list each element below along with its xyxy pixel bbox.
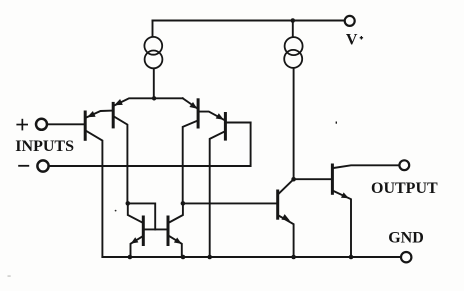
node Q7 collector junction	[291, 177, 296, 182]
transistor Q5 (mirror left)	[142, 217, 145, 245]
node gnd Q5	[128, 255, 133, 260]
wire mirror diode link	[128, 203, 155, 229]
current source I1	[144, 37, 162, 55]
wire Q8 emitter	[334, 191, 352, 257]
wire Q1 emitter to Q2 base	[86, 111, 112, 118]
wire CS1 bottom lead	[153, 69, 155, 99]
node gnd Q7	[291, 255, 296, 260]
transistor Q4 (PNP input follower -)	[224, 114, 227, 140]
wire Q5 collector	[128, 203, 143, 223]
wire mirror bases link	[143, 228, 168, 230]
wire top supply rail	[153, 20, 344, 22]
node top rail junction	[291, 18, 296, 23]
transistor Q3 (PNP diff pair right)	[197, 100, 200, 127]
node mirror right	[181, 201, 186, 206]
wire Q8 collector to OUTPUT	[334, 165, 400, 168]
wire Q4 base loop	[226, 122, 250, 124]
wire ground rail	[102, 256, 400, 258]
svg-text:OUTPUT: OUTPUT	[371, 180, 438, 197]
wire CS1 top lead	[152, 21, 154, 37]
current source I2	[285, 37, 303, 55]
svg-text:V: V	[346, 31, 358, 48]
node gnd Q8	[349, 255, 354, 260]
label + sign	[16, 119, 28, 131]
wire Q7 emitter	[279, 216, 294, 257]
speck artifact	[336, 122, 337, 124]
node common emitters	[152, 96, 156, 100]
speck artifact	[8, 276, 11, 277]
terminal OUTPUT	[399, 160, 409, 170]
node gnd Q6	[181, 255, 186, 260]
transistor Q2 (PNP diff pair left)	[112, 103, 115, 127]
wire - input line	[49, 123, 251, 167]
transistor Q6 (mirror right)	[167, 217, 170, 245]
wire Q3 collector	[183, 121, 198, 204]
terminal V+	[345, 16, 355, 26]
transistor Q7 (driver)	[276, 191, 279, 218]
terminal + input	[36, 119, 47, 130]
wire Q3 emitter diagonal	[183, 98, 197, 108]
svg-text:INPUTS: INPUTS	[15, 138, 74, 155]
wire Q4 emitter to Q3 base	[200, 112, 224, 120]
wire CS2 top lead	[292, 21, 294, 37]
speck artifact	[115, 210, 117, 212]
wire first stage output to Q7 base	[183, 202, 276, 204]
wire Q5 emitter	[131, 236, 143, 257]
terminal - input	[37, 160, 48, 171]
terminal GND	[401, 252, 411, 262]
wire CS2 to Q7 collector node	[293, 68, 295, 179]
wire Q7 collector	[279, 179, 294, 194]
wire + input to Q1 base	[47, 123, 84, 125]
svg-text:GND: GND	[388, 230, 424, 247]
wire emitters node to Q3	[154, 97, 183, 99]
node gnd Q4	[207, 255, 212, 260]
label - sign	[18, 165, 29, 167]
wire Q6 emitter	[169, 236, 182, 257]
transistor Q1 (PNP input follower +)	[84, 112, 87, 139]
wire Q2 emitter	[114, 98, 154, 105]
wire Q2 collector	[114, 116, 128, 203]
wire Q7 collector node to Q8 base	[294, 178, 331, 180]
wire Q6 collector	[168, 203, 183, 223]
wire Q1 collector	[86, 131, 102, 257]
transistor Q8 (output)	[331, 165, 334, 193]
wire Q4 collector	[210, 131, 225, 257]
node mirror left	[126, 201, 131, 206]
